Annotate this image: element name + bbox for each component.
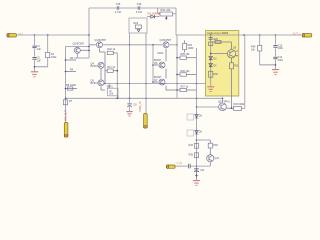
wire (259, 51, 261, 65)
wire (113, 70, 117, 72)
diode D3 (209, 57, 213, 60)
wire Q column right (165, 49, 167, 62)
svg-text:V_IN: V_IN (177, 162, 183, 165)
wire (129, 107, 131, 112)
svg-text:R28: R28 (214, 39, 219, 41)
svg-text:BC547: BC547 (154, 76, 162, 79)
svg-text:1uF: 1uF (37, 59, 42, 62)
ground block (207, 86, 214, 88)
capacitor C11 (196, 166, 198, 168)
wire (113, 52, 117, 54)
svg-text:RV1 10k: RV1 10k (161, 8, 172, 12)
wire (100, 69, 102, 79)
resistor R6 (66, 88, 78, 90)
svg-text:R22: R22 (134, 22, 139, 25)
svg-text:C16: C16 (137, 3, 142, 6)
svg-text:Q11: Q11 (215, 157, 220, 160)
capacitor C8 (129, 98, 131, 103)
wire (119, 7, 138, 9)
svg-text:4.7uF: 4.7uF (115, 11, 122, 14)
wire (231, 42, 233, 50)
svg-text:R6 100R: R6 100R (66, 84, 76, 87)
svg-text:BC547: BC547 (91, 65, 99, 68)
capacitor C15 (117, 6, 119, 9)
wire (175, 8, 177, 35)
wire vertical x177 (176, 35, 178, 98)
transistor Q11 (207, 155, 214, 162)
wire (191, 165, 211, 167)
capacitor C10 (189, 164, 191, 169)
wire (100, 87, 102, 91)
resistor R24 (183, 43, 187, 49)
resistor R10 (107, 51, 113, 54)
bias network box (129, 18, 147, 33)
svg-text:Q10 TIP41: Q10 TIP41 (218, 100, 230, 103)
resistor R36 (209, 140, 211, 143)
svg-text:BC547: BC547 (154, 59, 162, 62)
wire Q2 collector (76, 46, 78, 49)
wire base (197, 106, 219, 108)
connector J4 (144, 114, 148, 129)
resistor R30 (209, 71, 213, 77)
connector J1 input (7, 34, 17, 37)
resistor R26 (180, 73, 186, 76)
wire (155, 16, 160, 18)
wire mid rail y83.5 (105, 83, 206, 85)
wire vertical x117 (116, 53, 118, 98)
wire block column (210, 35, 212, 86)
svg-text:IN_L: IN_L (19, 32, 25, 36)
yellow highlight block (amplifier bias section) (206, 31, 239, 97)
wire bottom rail (66, 97, 223, 99)
svg-text:R27 1k: R27 1k (181, 85, 189, 88)
svg-text:100n: 100n (278, 59, 284, 62)
wire (145, 98, 147, 113)
wire column x196.5 (196, 48, 198, 180)
svg-text:Q2 BC557: Q2 BC557 (73, 43, 85, 46)
resistor R3 tap (66, 59, 77, 61)
ground output stage (193, 180, 200, 182)
wire (153, 81, 158, 83)
capacitor C14 (273, 56, 277, 58)
wire (275, 48, 277, 56)
wire block link (211, 41, 232, 43)
resistor R34 (194, 143, 198, 148)
wire Q2 base lead (80, 49, 89, 51)
svg-text:356: 356 (109, 93, 114, 96)
wire input rail (17, 34, 90, 36)
resistor R29 (209, 42, 213, 46)
wire join (260, 64, 276, 66)
wire (34, 60, 36, 72)
wire Q2 emitter lead (76, 53, 78, 58)
wire bias col (145, 33, 147, 98)
wire (242, 107, 245, 109)
wire output rail (176, 34, 303, 36)
svg-text:VREF: VREF (157, 52, 164, 55)
wire (209, 162, 211, 166)
wire (34, 49, 36, 57)
svg-text:100k: 100k (51, 56, 57, 59)
svg-text:R34: R34 (189, 144, 194, 147)
wire (177, 74, 180, 76)
wire (74, 57, 89, 59)
wire (184, 40, 186, 43)
resistor R40 (259, 35, 261, 45)
wire (140, 7, 176, 9)
wire (170, 44, 177, 46)
resistor R27 (180, 88, 186, 91)
wire (231, 57, 233, 63)
capacitor C2 (32, 57, 36, 59)
svg-text:1uF: 1uF (37, 48, 42, 51)
svg-text:R25 10k: R25 10k (181, 53, 191, 56)
resistor R33 (234, 106, 242, 110)
wire (153, 64, 158, 66)
wire (196, 172, 198, 181)
wire emitter (227, 107, 234, 109)
resistor R7 (63, 100, 67, 105)
wire (209, 148, 211, 154)
svg-text:100R: 100R (188, 47, 194, 50)
wire emitter rail (89, 44, 96, 46)
wire main vertical x89 (88, 8, 90, 58)
svg-text:BC547: BC547 (91, 82, 99, 85)
wire link (197, 139, 211, 141)
diode D6 (187, 130, 194, 136)
svg-text:R36: R36 (213, 144, 218, 147)
wire (108, 84, 110, 89)
connector J5 (167, 165, 176, 168)
capacitor C1 (34, 35, 36, 45)
diode D4 (209, 64, 213, 67)
wire pot right lead (173, 13, 177, 15)
resistor R25 (180, 56, 186, 59)
wire feedback column (65, 47, 67, 123)
svg-text:R31: R31 (234, 66, 239, 68)
ground input (31, 71, 38, 73)
resistor R4 tap (66, 71, 77, 73)
ground right (272, 69, 279, 71)
svg-text:R11 1k: R11 1k (108, 66, 116, 69)
diode D5 (187, 114, 194, 120)
wire top rail V+ (89, 7, 117, 9)
svg-text:R26 10k: R26 10k (181, 70, 191, 73)
trimmer marks (209, 37, 213, 39)
svg-text:R35: R35 (189, 154, 194, 157)
wire vertical x129.5 (129, 33, 131, 99)
wire (47, 58, 49, 67)
capacitor C13 (275, 35, 277, 45)
wire (175, 165, 188, 167)
wire (177, 89, 180, 91)
svg-text:SIG_OUT: SIG_OUT (64, 110, 67, 121)
wire (177, 57, 180, 59)
wire (275, 60, 277, 70)
wire join (35, 66, 48, 68)
capacitor C16 (138, 6, 140, 9)
svg-text:R30: R30 (214, 74, 219, 76)
svg-text:R33 0R22: R33 0R22 (234, 103, 245, 106)
wire collector (222, 98, 224, 102)
wire feedback riser (244, 35, 246, 108)
transistor Q9 (227, 50, 235, 58)
wire base q9 (211, 53, 228, 55)
svg-text:R10 1k: R10 1k (108, 48, 116, 51)
connector J2 output (302, 34, 312, 37)
resistor R35 (194, 153, 198, 158)
wire Q column (99, 49, 101, 53)
wire pot left lead (157, 8, 159, 14)
svg-text:OUT_L: OUT_L (293, 32, 302, 36)
svg-text:4.7uF: 4.7uF (136, 11, 143, 14)
ground C8 (126, 111, 132, 113)
svg-text:C11: C11 (200, 169, 205, 172)
svg-text:C15: C15 (116, 3, 121, 6)
resistor R31 (230, 63, 234, 69)
svg-text:100n: 100n (278, 47, 284, 50)
resistor R1 (47, 35, 49, 52)
diode D2 marks (137, 30, 140, 32)
wire base column x153 (152, 45, 154, 82)
wire (66, 46, 90, 48)
resistor R11 (107, 69, 113, 72)
svg-text:PWR_IN: PWR_IN (138, 101, 142, 111)
connector J3 (64, 123, 68, 138)
